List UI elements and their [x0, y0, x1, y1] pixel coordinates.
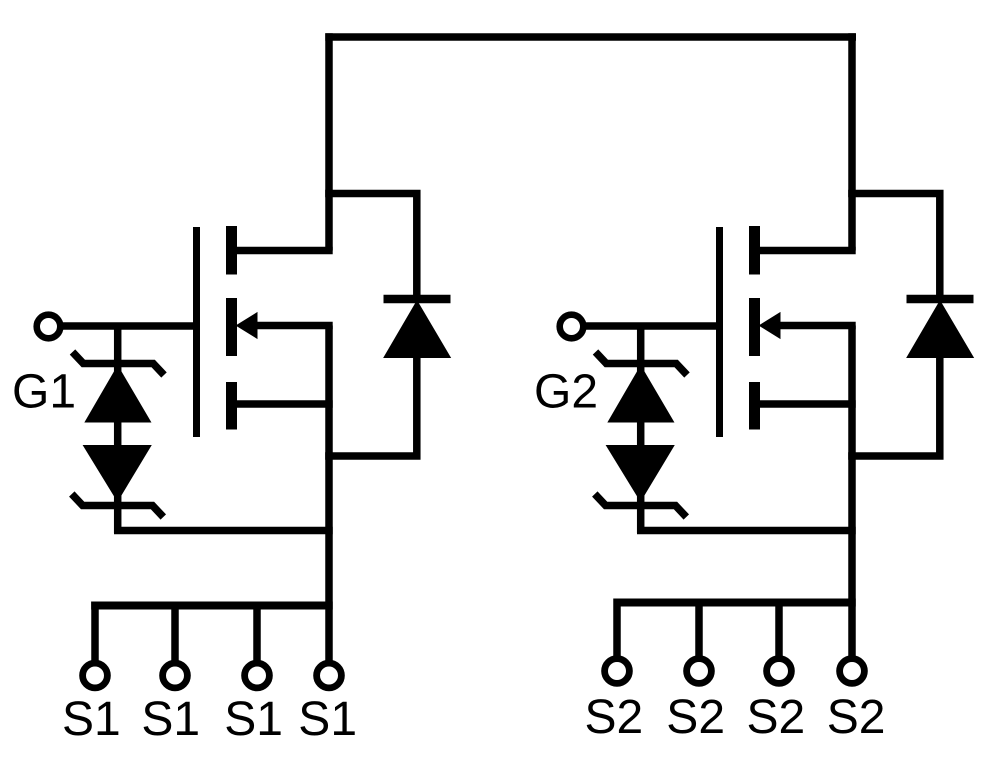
- zener Z2b cathode bar: [595, 494, 687, 517]
- wire zener stem (gate to zeners): [637, 326, 645, 533]
- MOSFET Q1 source lead: [231, 400, 333, 408]
- pin circle S1 #3: [245, 663, 270, 688]
- zener Z2b triangle: [607, 446, 674, 502]
- pin circle S1 #2: [163, 663, 188, 688]
- diode D2 triangle (anode): [907, 301, 973, 358]
- wire gate lead G1 to gate bar: [61, 322, 199, 330]
- diode D1 cathode bar: [384, 295, 451, 304]
- diode D2 cathode bar: [907, 295, 974, 304]
- wire source bus: [614, 599, 856, 607]
- pin circle S1 #4: [317, 663, 342, 688]
- svg-text:G2: G2: [534, 366, 598, 419]
- wire pin stub S1 #2: [171, 602, 179, 665]
- MOSFET Q2 channel segment (body): [749, 298, 760, 356]
- wire gate lead G2 to gate bar: [584, 322, 722, 330]
- wire source vertical (body/source/diode/zener/bus tie): [848, 326, 856, 660]
- pin circle S2 #1: [605, 659, 630, 684]
- MOSFET Q1 channel segment (body): [226, 298, 237, 356]
- pin circle S2 #4: [840, 659, 865, 684]
- zener Z2a cathode bar: [596, 352, 688, 375]
- wire zener return to source node: [114, 527, 333, 535]
- MOSFET Q2 source lead: [754, 400, 856, 408]
- svg-text:S1: S1: [62, 693, 121, 746]
- MOSFET Q1 body lead: [254, 322, 333, 330]
- MOSFET Q1 channel segment (drain): [226, 226, 237, 275]
- wire pin stub S1 #1: [91, 602, 99, 665]
- pin circle S1 #1: [83, 663, 108, 688]
- svg-text:G1: G1: [12, 366, 76, 419]
- wire source vertical (body/source/diode/zener/bus tie): [325, 326, 333, 665]
- zener Z1a triangle: [85, 366, 150, 422]
- MOSFET Q2 gate bar: [716, 227, 723, 437]
- svg-text:S2: S2: [666, 691, 725, 744]
- wire drain branch to body diode D2: [848, 194, 940, 300]
- svg-text:S1: S1: [298, 693, 357, 746]
- svg-text:S2: S2: [585, 691, 644, 744]
- wire drain vertical (top rail to Q2 drain lead): [848, 33, 856, 250]
- gate terminal G1 circle: [37, 315, 61, 339]
- zener Z2a triangle: [608, 366, 673, 422]
- wire drain branch to body diode D1: [325, 194, 417, 300]
- MOSFET Q1 body arrow: [237, 313, 258, 338]
- MOSFET Q2 channel segment (drain): [749, 226, 760, 275]
- gate terminal G2 circle: [560, 315, 584, 339]
- wire top rail (drain-drain common): [325, 33, 856, 41]
- wire zener stem (gate to zeners): [114, 326, 122, 533]
- MOSFET Q1 channel segment (source): [226, 382, 237, 430]
- svg-text:S1: S1: [141, 693, 200, 746]
- wire drain vertical (top rail to Q1 drain lead): [325, 33, 333, 250]
- MOSFET Q1 drain lead: [231, 247, 333, 255]
- zener Z1a cathode bar: [73, 352, 165, 375]
- svg-text:S2: S2: [747, 691, 806, 744]
- svg-text:S2: S2: [827, 691, 886, 744]
- wire pin stub S1 #3: [253, 602, 261, 665]
- pin circle S2 #3: [767, 659, 792, 684]
- svg-text:S1: S1: [224, 693, 283, 746]
- MOSFET Q1 gate bar: [193, 227, 200, 437]
- wire pin stub S2 #3: [775, 599, 783, 660]
- MOSFET Q2 drain lead: [754, 247, 856, 255]
- wire pin stub S2 #2: [695, 599, 703, 660]
- wire D2 anode to source node: [848, 355, 940, 456]
- zener Z1b cathode bar: [72, 494, 164, 517]
- wire zener return to source node: [637, 527, 856, 535]
- wire D1 anode to source node: [325, 355, 417, 456]
- MOSFET Q2 body arrow: [760, 313, 781, 338]
- diode D1 triangle (anode): [384, 301, 450, 358]
- pin circle S2 #2: [687, 659, 712, 684]
- wire source bus: [91, 602, 333, 610]
- wire pin stub S2 #1: [613, 599, 621, 660]
- MOSFET Q2 channel segment (source): [749, 382, 760, 430]
- MOSFET Q2 body lead: [777, 322, 856, 330]
- zener Z1b triangle: [84, 446, 151, 502]
